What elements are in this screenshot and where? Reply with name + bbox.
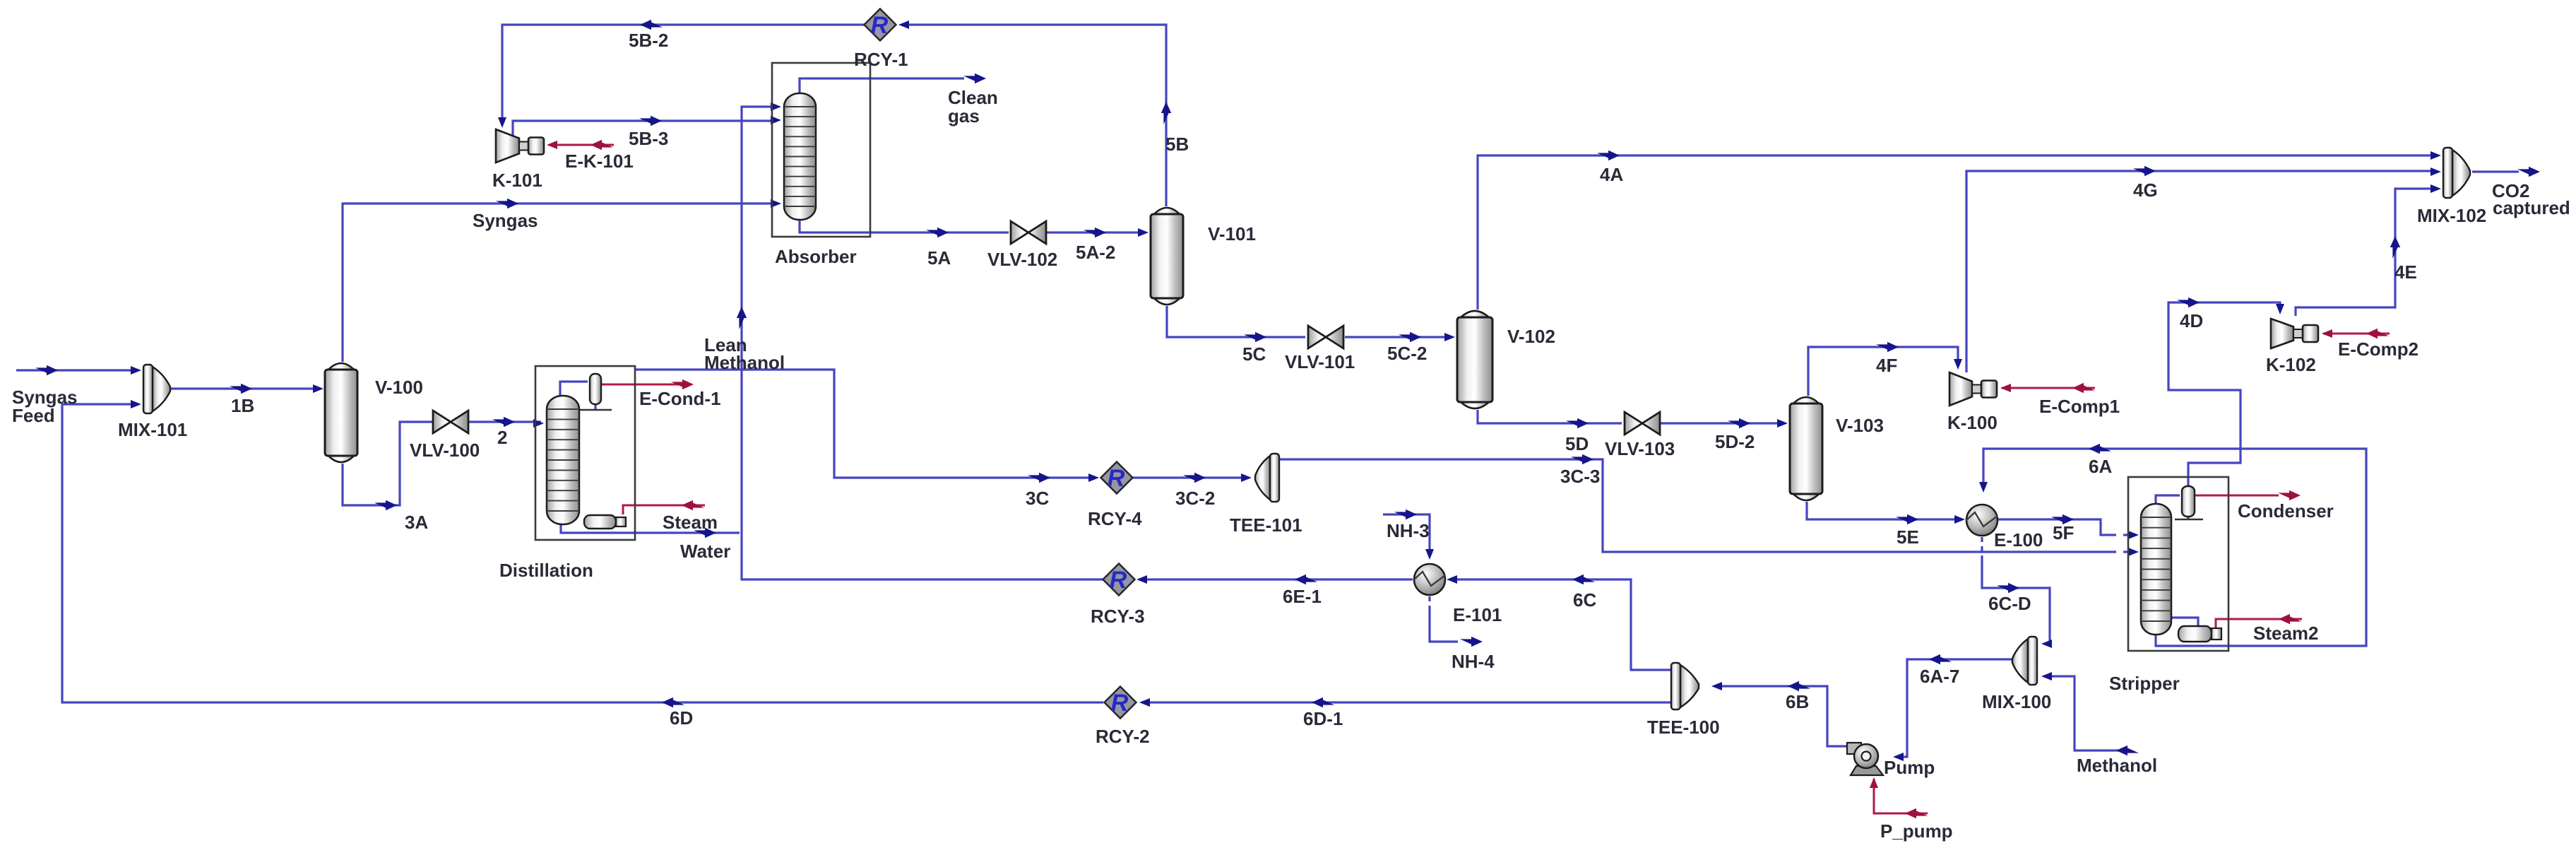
arrowhead 4E into MIX-102 — [2430, 184, 2441, 193]
flow arrow 6A-7 — [1929, 654, 1952, 664]
heat exchanger E-101 — [1414, 564, 1445, 595]
flow arrow 4A — [1597, 151, 1620, 160]
arrowhead into V-103 — [1777, 419, 1788, 428]
svg-text:K-102: K-102 — [2266, 354, 2316, 375]
recycle RCY-2 — [1105, 687, 1136, 719]
flow arrow 5A-2 — [1084, 228, 1106, 237]
wire 5A-2 — [1046, 231, 1146, 233]
wire E-101 bottom dash — [1428, 596, 1430, 609]
arrowhead E-K-101 tip — [547, 141, 557, 149]
svg-text:Steam2: Steam2 — [2253, 623, 2319, 644]
flow arrow 5D — [1566, 418, 1589, 428]
flow arrow 3C — [1028, 473, 1050, 483]
svg-text:MIX-102: MIX-102 — [2417, 205, 2486, 226]
wire 5F — [1998, 519, 2136, 535]
vessel V-101 — [1151, 208, 1183, 305]
svg-text:5D: 5D — [1565, 433, 1589, 454]
arrowhead into MIX-101 bottom — [131, 400, 141, 408]
svg-text:R: R — [1111, 690, 1129, 717]
flow arrow E-Comp2 — [2366, 329, 2389, 338]
wire E-100 bottom dash — [1981, 537, 1983, 558]
arrowhead 6A into E-100 — [1979, 482, 1988, 493]
flow arrow 6A — [2089, 444, 2111, 454]
svg-text:E-101: E-101 — [1453, 604, 1502, 625]
svg-text:Stripper: Stripper — [2109, 673, 2180, 694]
svg-text:Syngas: Syngas — [473, 210, 538, 231]
mixer/tee TEE-101 — [1255, 454, 1279, 502]
wire Stripper reboiler line — [2171, 618, 2198, 626]
wire 5B riser — [901, 25, 1166, 206]
flow arrow 5B-3 — [639, 116, 662, 126]
wire 4E — [2296, 189, 2437, 316]
arrowhead into K-100 — [1954, 359, 1962, 370]
arrowhead 5F into Stripper — [2128, 531, 2139, 539]
svg-text:V-101: V-101 — [1208, 223, 1256, 245]
svg-text:Pump: Pump — [1884, 757, 1935, 778]
svg-text:captured: captured — [2493, 197, 2570, 218]
svg-text:5C-2: 5C-2 — [1387, 343, 1427, 364]
svg-text:4G: 4G — [2133, 179, 2158, 201]
arrowhead E-Comp2 tip — [2322, 329, 2332, 338]
arrowhead 6B into TEE-100 — [1711, 682, 1722, 690]
condenser drum Distillation condenser — [590, 374, 601, 404]
svg-text:RCY-2: RCY-2 — [1096, 726, 1150, 747]
svg-text:Methanol: Methanol — [704, 352, 785, 373]
arrowhead NH-3 into E-101 — [1425, 549, 1434, 560]
arrowhead into MIX-101 top — [131, 366, 141, 375]
condenser support tick 2 — [579, 409, 612, 411]
flow arrow 5A — [926, 228, 949, 237]
svg-text:NH-3: NH-3 — [1387, 520, 1430, 541]
wire 5B-2 to K-101 — [502, 25, 865, 122]
flow arrow 2 — [492, 417, 515, 427]
reboiler Distillation reboiler — [584, 515, 626, 529]
arrowhead Syngas into Absorber — [771, 199, 781, 208]
svg-text:VLV-102: VLV-102 — [987, 249, 1057, 270]
arrowhead 4A into MIX-102 — [2430, 151, 2441, 160]
svg-text:gas: gas — [948, 105, 980, 126]
svg-text:3C: 3C — [1026, 488, 1049, 509]
wire NH-3 — [1383, 514, 1430, 551]
flow arrow Condenser duty — [2278, 490, 2301, 500]
wire Syngas Feed top inlet — [16, 369, 138, 371]
wire Lean Methanol riser — [742, 107, 1103, 579]
arrowhead 5B-3 into Absorber — [771, 116, 781, 124]
svg-text:4E: 4E — [2394, 261, 2417, 283]
flow arrow 5D-2 — [1728, 418, 1750, 428]
wire 6C — [1449, 579, 1670, 670]
reboiler Stripper reboiler — [2178, 626, 2221, 642]
condenser drum Stripper condenser — [2182, 486, 2195, 517]
arrowhead into TEE-101 — [1241, 473, 1252, 482]
svg-text:6D: 6D — [670, 707, 693, 729]
wire 4G — [1966, 171, 2437, 372]
svg-text:E-K-101: E-K-101 — [565, 151, 634, 172]
mixer/tee TEE-100 — [1671, 663, 1699, 709]
flow arrow 3A — [374, 500, 397, 510]
arrowhead 6C into E-101 — [1447, 575, 1457, 584]
wire Stripper condenser line — [2156, 495, 2180, 504]
svg-text:R: R — [1108, 465, 1125, 492]
wire P_pump energy — [1874, 779, 1928, 813]
subflowsheet box Stripper — [2128, 477, 2228, 651]
svg-text:Absorber: Absorber — [775, 246, 857, 267]
wire Stripper bottoms / 6A loop — [1983, 449, 2366, 646]
svg-text:MIX-101: MIX-101 — [118, 419, 187, 440]
flow arrow 5F — [2051, 514, 2074, 524]
flow arrow 6C-D — [1997, 583, 2019, 593]
wire 4D from condenser — [2168, 302, 2280, 486]
column Absorber column — [784, 93, 816, 220]
wire E-Cond-1 energy — [601, 384, 681, 386]
svg-text:3C-3: 3C-3 — [1560, 466, 1600, 487]
flow arrow 6B — [1788, 681, 1810, 691]
mixer/tee MIX-100 — [2012, 637, 2037, 685]
svg-text:VLV-103: VLV-103 — [1605, 438, 1675, 459]
wire 5C — [1167, 306, 1305, 337]
svg-text:K-101: K-101 — [492, 170, 542, 191]
wire 6D recycle to MIX-101 — [62, 404, 1103, 702]
svg-text:Steam: Steam — [663, 512, 718, 533]
compressor K-100 — [1949, 372, 1997, 406]
flow arrow Steam — [682, 500, 704, 510]
arrowhead Methanol into MIX-100 — [2041, 672, 2052, 681]
wire 6B — [1714, 686, 1855, 746]
svg-text:6E-1: 6E-1 — [1283, 586, 1322, 607]
svg-text:6C-D: 6C-D — [1988, 593, 2031, 614]
svg-text:5D-2: 5D-2 — [1715, 431, 1755, 452]
arrowhead P_pump tip — [1870, 777, 1878, 788]
wire E-Comp1 energy — [2002, 387, 2095, 389]
arrowhead into RCY-1 — [898, 20, 909, 29]
wire Stripper condenser stub — [2187, 517, 2189, 519]
svg-text:5B-2: 5B-2 — [629, 30, 668, 51]
svg-text:5A-2: 5A-2 — [1076, 242, 1115, 263]
wire 5E — [1807, 502, 1962, 519]
flow arrow P_pump — [1905, 808, 1928, 818]
flow arrow 5B up — [1161, 102, 1171, 124]
wire 1B — [170, 387, 321, 389]
wire Distillation condenser stub — [594, 404, 596, 409]
arrowhead 4D into K-102 — [2276, 304, 2284, 314]
svg-text:4F: 4F — [1876, 355, 1897, 376]
recycle RCY-1 — [865, 9, 896, 41]
flow arrow 3C-3 — [1571, 454, 1593, 464]
arrowhead 4G into MIX-102 — [2430, 167, 2441, 176]
subflowsheet box Distillation — [535, 366, 635, 540]
wire 3C-3 to Stripper — [1280, 459, 2136, 552]
wire 2 to Distillation — [468, 420, 541, 423]
svg-text:3A: 3A — [405, 512, 428, 533]
flow arrow CO2 captured — [2517, 167, 2540, 177]
wire 6D-1 — [1142, 701, 1670, 703]
svg-text:RCY-4: RCY-4 — [1088, 508, 1142, 529]
arrowhead into Absorber top — [771, 102, 781, 111]
svg-text:5F: 5F — [2053, 522, 2074, 543]
svg-text:V-103: V-103 — [1836, 415, 1884, 436]
wire Condenser energy — [2195, 495, 2279, 497]
compressor K-102 — [2271, 319, 2318, 348]
svg-text:V-102: V-102 — [1507, 326, 1555, 347]
flow arrow 4D — [2177, 298, 2200, 307]
flow arrow Steam2 — [2279, 614, 2301, 624]
wire distillate to 3C — [635, 370, 1096, 478]
svg-text:1B: 1B — [231, 395, 254, 416]
vessel V-103 — [1790, 397, 1822, 500]
wire CO2 captured outlet — [2472, 170, 2519, 172]
svg-text:Water: Water — [680, 541, 730, 562]
svg-text:Condenser: Condenser — [2238, 500, 2334, 522]
wire 5D-2 — [1660, 422, 1785, 424]
vessel V-102 — [1457, 311, 1492, 408]
column Distillation column — [547, 396, 579, 524]
wire 3C-2 — [1133, 476, 1249, 478]
arrowhead into Distillation — [533, 419, 544, 428]
flow arrow 5E — [1896, 514, 1918, 524]
subflowsheet box Absorber — [772, 63, 870, 237]
svg-text:6B: 6B — [1786, 691, 1809, 712]
svg-text:6C: 6C — [1573, 589, 1596, 611]
svg-text:NH-4: NH-4 — [1452, 651, 1495, 672]
wire Steam2 energy — [2216, 619, 2302, 628]
wire 5D — [1478, 410, 1622, 423]
flow arrow 5C-2 — [1399, 332, 1421, 342]
svg-text:VLV-100: VLV-100 — [410, 440, 480, 461]
svg-text:TEE-100: TEE-100 — [1647, 717, 1720, 738]
arrowhead into RCY-4 — [1088, 473, 1099, 482]
svg-text:E-Comp1: E-Comp1 — [2039, 396, 2120, 417]
flow arrow NH-3 — [1394, 510, 1417, 519]
wire E-Comp2 energy — [2323, 333, 2390, 335]
arrowhead into V-101 — [1138, 228, 1148, 237]
flow arrow E-Cond-1 — [671, 379, 694, 389]
wire Distillation bottoms / Water — [561, 524, 740, 533]
svg-text:6A: 6A — [2089, 456, 2112, 477]
flow arrow 5C — [1244, 332, 1266, 342]
wire NH-4 — [1430, 609, 1458, 642]
svg-text:6D-1: 6D-1 — [1303, 708, 1343, 729]
arrowhead into RCY-3 — [1136, 575, 1147, 584]
mixer/tee MIX-101 — [143, 365, 170, 413]
svg-text:4A: 4A — [1600, 164, 1623, 185]
arrowhead into RCY-2 — [1139, 698, 1150, 707]
wire Methanol inlet — [2044, 676, 2123, 750]
flow arrow 4E up — [2390, 236, 2400, 259]
svg-text:Methanol: Methanol — [2077, 755, 2157, 776]
svg-text:RCY-3: RCY-3 — [1091, 606, 1145, 627]
svg-text:5A: 5A — [927, 247, 951, 269]
svg-text:5C: 5C — [1242, 343, 1266, 365]
heat exchanger E-100 — [1966, 505, 1998, 536]
svg-text:E-Cond-1: E-Cond-1 — [639, 388, 721, 409]
wire 6C-D — [1982, 558, 2050, 644]
valve VLV-102 — [1011, 221, 1046, 244]
flow arrow 6D — [662, 697, 684, 707]
flow arrow 4G — [2133, 166, 2156, 176]
recycle RCY-4 — [1101, 462, 1133, 494]
arrowhead 6A-7 into Pump — [1893, 753, 1904, 761]
svg-text:3C-2: 3C-2 — [1175, 488, 1215, 509]
column Stripper column — [2141, 504, 2171, 635]
mixer/tee MIX-102 — [2443, 148, 2470, 198]
condenser support tick — [2175, 519, 2203, 520]
flow arrow 6E-1 — [1295, 575, 1317, 584]
compressor K-101 — [496, 129, 544, 163]
svg-text:Feed: Feed — [12, 405, 55, 426]
svg-text:P_pump: P_pump — [1880, 820, 1953, 842]
svg-text:E-100: E-100 — [1994, 529, 2043, 550]
wire 5C-2 — [1345, 336, 1452, 338]
flow arrow E-K-101 — [590, 140, 613, 150]
wire 6A-7 — [1896, 659, 2012, 757]
svg-text:2: 2 — [497, 427, 507, 448]
svg-text:R: R — [871, 12, 889, 39]
wire 3A to VLV-100 — [343, 422, 432, 505]
flow arrow Clean gas — [963, 73, 986, 83]
wire 5B-3 to Absorber — [513, 121, 777, 136]
valve VLV-103 — [1625, 412, 1660, 435]
wire 4A — [1478, 155, 2437, 310]
wire Distillation condenser line — [560, 382, 588, 396]
arrowhead into V-102 — [1444, 333, 1455, 341]
flow arrow E-Comp1 — [2072, 383, 2095, 393]
svg-text:MIX-100: MIX-100 — [1982, 691, 2051, 712]
svg-text:E-Comp2: E-Comp2 — [2338, 338, 2418, 360]
flow arrow 6D-1 — [1312, 697, 1334, 707]
svg-text:R: R — [1110, 567, 1127, 594]
svg-text:5B: 5B — [1165, 134, 1189, 155]
flow arrow Syngas Feed — [35, 365, 58, 375]
recycle RCY-3 — [1103, 564, 1135, 596]
flow arrow 5B-2 — [640, 20, 663, 30]
arrowhead into Stripper lower — [2128, 548, 2139, 556]
arrowhead into V-100 — [313, 384, 324, 393]
flow arrow Methanol — [2116, 746, 2139, 755]
svg-text:V-100: V-100 — [375, 377, 423, 398]
wire 6E-1 — [1139, 578, 1413, 580]
svg-text:K-100: K-100 — [1947, 412, 1998, 433]
flow arrow Water — [694, 528, 716, 538]
svg-text:Distillation: Distillation — [499, 560, 593, 581]
arrowhead 6C-D into MIX-100 — [2041, 640, 2052, 648]
wire Clean gas — [800, 78, 964, 93]
flow arrow Lean Methanol up — [737, 307, 747, 329]
wire Steam energy — [623, 505, 705, 514]
arrowhead E-Comp1 tip — [2000, 384, 2011, 392]
vessel V-100 — [325, 363, 357, 462]
svg-text:RCY-1: RCY-1 — [854, 49, 908, 70]
svg-text:5B-3: 5B-3 — [629, 128, 668, 149]
svg-text:5E: 5E — [1897, 526, 1919, 548]
flow arrow 1B — [230, 384, 252, 394]
wire 4F — [1808, 347, 1958, 396]
wire 5A — [800, 220, 1009, 232]
pump Pump — [1847, 743, 1883, 775]
svg-text:VLV-101: VLV-101 — [1285, 351, 1355, 372]
valve VLV-101 — [1308, 326, 1343, 348]
flow arrow 4F — [1876, 342, 1899, 352]
flow arrow 3C-2 — [1183, 473, 1206, 483]
svg-text:6A-7: 6A-7 — [1920, 666, 1959, 687]
arrowhead into K-101 — [498, 117, 506, 128]
flow arrow 6C — [1572, 575, 1595, 584]
flow arrow Syngas — [496, 199, 518, 208]
arrowhead into E-100 — [1954, 515, 1965, 524]
valve VLV-100 — [433, 411, 468, 433]
svg-text:4D: 4D — [2180, 310, 2203, 331]
wire E-K-101 energy — [550, 144, 614, 146]
svg-text:TEE-101: TEE-101 — [1230, 514, 1302, 536]
wire V-100 overhead Syngas — [343, 204, 777, 362]
flow arrow NH-4 — [1460, 637, 1483, 647]
